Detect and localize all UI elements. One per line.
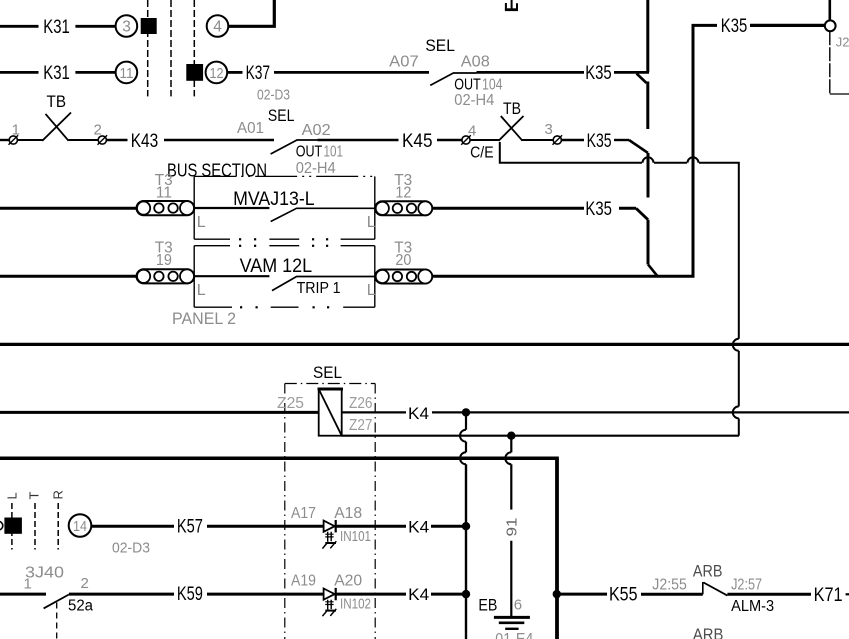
svg-text:K35: K35: [721, 16, 748, 37]
bus K35 vertical 648: [646, 0, 649, 72]
wire above J2 circle: [828, 0, 831, 20]
wire K43 to contact: [164, 139, 274, 141]
contact VAM TRIP blade: [272, 277, 375, 291]
svg-text:K37: K37: [246, 63, 271, 84]
svg-text:91: 91: [504, 518, 521, 537]
wire: [437, 139, 462, 141]
wire 91 lower: [510, 541, 512, 616]
bus wire y=456.5 with corner down: [0, 457, 559, 461]
svg-text:6: 6: [514, 597, 522, 614]
switch TB left X: [42, 113, 71, 141]
svg-text:L: L: [4, 492, 19, 499]
wire: [641, 593, 703, 596]
svg-text:SEL: SEL: [268, 106, 295, 125]
wire row E left: [0, 275, 137, 278]
switch TB right X: [499, 116, 524, 141]
svg-text:3: 3: [545, 121, 553, 138]
wire to corner 739: [699, 163, 739, 339]
wire row A to top edge: [228, 0, 274, 26]
bus merge diagonal row D: [636, 208, 648, 219]
terminal circle 3: [116, 15, 138, 37]
svg-text:BUS SECTION: BUS SECTION: [167, 161, 267, 181]
svg-text:L: L: [197, 214, 206, 231]
wire: [91, 525, 174, 528]
junction dot row G / 466: [462, 408, 470, 416]
svg-text:SEL: SEL: [425, 36, 455, 55]
svg-text:12: 12: [395, 185, 411, 202]
fuse/MOV Z25-Z26 box: [319, 389, 342, 436]
svg-text:L: L: [367, 282, 376, 299]
svg-text:SEL: SEL: [313, 363, 342, 382]
connector J2 circle: [825, 20, 836, 31]
drawout square row A: [141, 18, 157, 34]
wire: [614, 139, 629, 141]
switch 52a blade: [44, 595, 69, 609]
connector T3-19 pill: [137, 269, 195, 283]
svg-text:R: R: [51, 490, 66, 499]
svg-text:2: 2: [81, 575, 89, 592]
junction dot row J: [462, 522, 470, 530]
svg-text:IN102: IN102: [340, 596, 371, 613]
svg-text:02-D3: 02-D3: [112, 540, 150, 557]
junction dot row K / 466: [462, 590, 470, 598]
svg-text:EB: EB: [478, 595, 497, 614]
svg-text:J2:4: J2:4: [836, 35, 849, 50]
drawout square bottom left: [4, 518, 22, 534]
svg-text:A07: A07: [389, 53, 419, 70]
relay box MVAJ13-L outline: [193, 176, 195, 239]
svg-text:02-D3: 02-D3: [257, 87, 290, 104]
wire row G to right edge: [432, 411, 849, 413]
svg-text:A18: A18: [334, 505, 362, 522]
hop of vertical 739 over K4 row: [733, 406, 739, 418]
svg-text:4: 4: [213, 19, 222, 36]
contact A07-A08 blade: [430, 73, 476, 85]
svg-text:101: 101: [324, 144, 344, 161]
contact ARB tick and blade: [702, 582, 704, 594]
svg-text:K4: K4: [408, 518, 429, 537]
wire in box row D: [194, 207, 269, 209]
svg-text:K4: K4: [408, 404, 429, 423]
junction dot row K / 557: [553, 590, 561, 598]
svg-text:C/E: C/E: [470, 145, 494, 162]
terminal circle 4: [207, 15, 229, 37]
svg-text:A01: A01: [237, 120, 264, 137]
svg-text:K43: K43: [131, 131, 159, 152]
svg-text:K31: K31: [43, 17, 70, 38]
wire: [227, 71, 242, 74]
svg-text:11: 11: [120, 66, 134, 82]
wire K31 row B left: [0, 71, 39, 74]
svg-text:TB: TB: [47, 92, 67, 111]
wire in box row E: [194, 275, 269, 277]
wire: [470, 139, 499, 141]
svg-text:K4: K4: [408, 585, 429, 604]
wire: [75, 25, 115, 28]
wire: [431, 525, 466, 528]
dashed boundary line 2: [170, 0, 172, 96]
wire: [17, 139, 43, 141]
svg-text:K35: K35: [587, 131, 612, 152]
terminal circle 14: [69, 514, 92, 537]
terminal 4 circle: [462, 136, 470, 144]
svg-text:A02: A02: [302, 122, 331, 139]
svg-text:K45: K45: [402, 131, 433, 152]
wire: [75, 71, 115, 74]
svg-text:02-H4: 02-H4: [296, 160, 336, 177]
svg-text:Z27: Z27: [349, 417, 373, 434]
svg-text:ARB: ARB: [693, 562, 723, 581]
wire: [557, 593, 607, 596]
svg-text:IN101: IN101: [340, 528, 371, 545]
svg-text:L: L: [197, 282, 206, 299]
svg-text:OUT: OUT: [296, 144, 323, 161]
svg-text:OUT: OUT: [454, 77, 481, 94]
svg-text:Z26: Z26: [349, 395, 373, 412]
wire: [738, 351, 740, 407]
svg-text:A17: A17: [291, 505, 316, 522]
svg-text:A19: A19: [291, 573, 316, 590]
svg-text:52a: 52a: [68, 598, 93, 615]
svg-text:12: 12: [210, 66, 224, 82]
edge circle: [0, 521, 3, 530]
ground EB bars: [494, 616, 530, 619]
svg-text:TB: TB: [503, 99, 521, 118]
svg-text:VAM 12L: VAM 12L: [240, 256, 313, 277]
svg-text:K35: K35: [585, 63, 612, 84]
bus merge diagonal row B: [637, 74, 647, 84]
wire: [727, 593, 811, 596]
svg-text:K59: K59: [177, 584, 203, 605]
wire row E right to corner up to K35 top: [432, 25, 717, 276]
wire corner to row H: [738, 418, 740, 435]
svg-text:3: 3: [122, 19, 131, 36]
contact A01-A02 blade: [271, 140, 318, 154]
wire to J2 connector: [750, 24, 825, 27]
svg-text:A20: A20: [334, 573, 362, 590]
svg-text:T: T: [27, 492, 42, 500]
connector T3-20 pill: [375, 270, 432, 284]
svg-text:ALM-3: ALM-3: [731, 598, 774, 615]
dashed line 1: [11, 503, 13, 550]
dashed boundary line 1: [147, 0, 149, 96]
terminal circle 11: [116, 62, 138, 84]
wire K4 row G left: [0, 411, 319, 414]
svg-text:L: L: [367, 214, 376, 231]
wire: [522, 139, 554, 141]
rotated E glyph at top: [505, 8, 518, 11]
svg-text:K31: K31: [43, 63, 70, 84]
hop of vertical 739 over bus F: [733, 339, 739, 351]
svg-text:14: 14: [73, 519, 87, 535]
wire K37 to contact: [274, 71, 429, 74]
relay box VAM 12L outline: [193, 246, 195, 308]
svg-text:J2:55: J2:55: [652, 576, 687, 593]
wire row D left: [0, 207, 137, 210]
contact MVAJ blade: [271, 208, 375, 221]
node wire from TB down to cross line: [500, 142, 642, 163]
svg-text:02-H4: 02-H4: [454, 92, 494, 109]
svg-text:1: 1: [24, 576, 32, 593]
junction dot row H / 511: [507, 432, 515, 440]
hop over bus 648: [643, 157, 654, 162]
svg-text:01-E4: 01-E4: [495, 631, 533, 639]
wire contact to K35: [477, 71, 585, 74]
boundary top edge: [285, 383, 375, 385]
svg-text:PANEL 2: PANEL 2: [172, 309, 236, 328]
vertical wire 511 to ground: [510, 436, 512, 453]
bus wire y=344.8: [0, 343, 849, 346]
terminal 3 circle: [553, 136, 561, 144]
drawout square row B: [186, 64, 203, 81]
wire: [69, 139, 99, 141]
svg-text:TRIP 1: TRIP 1: [297, 280, 341, 297]
wire contact to K45: [317, 139, 398, 141]
wire: [207, 593, 324, 596]
svg-text:20: 20: [395, 252, 411, 269]
svg-text:MVAJ13-L: MVAJ13-L: [233, 189, 315, 210]
wire: [619, 207, 636, 210]
svg-text:11: 11: [156, 185, 172, 202]
wire: [431, 593, 466, 596]
J2 device outline: [829, 31, 831, 94]
svg-text:A08: A08: [461, 53, 490, 70]
vertical wire 466: [465, 412, 467, 429]
diode IN102: [324, 589, 335, 600]
wire row D right: [432, 207, 584, 210]
wire: [654, 162, 687, 164]
52a linkage dashed: [56, 603, 58, 639]
wire: [106, 139, 127, 141]
wire left: [0, 593, 46, 596]
hop over bus 693: [688, 157, 699, 162]
wire: [207, 525, 324, 528]
wire stub left: [0, 139, 10, 141]
terminal 1 circle: [9, 136, 17, 144]
svg-text:K57: K57: [177, 517, 203, 538]
wire: [69, 593, 174, 596]
wire: [337, 593, 407, 596]
terminal circle 12: [206, 62, 228, 84]
diode IN101: [324, 521, 335, 532]
terminal 2 circle: [98, 136, 106, 144]
svg-text:104: 104: [482, 77, 503, 94]
dashed line 3: [57, 503, 59, 550]
wire row G right of fuse: [342, 411, 406, 413]
boundary left line: [284, 384, 286, 639]
svg-text:19: 19: [156, 252, 172, 269]
connector T3-11 pill: [137, 201, 195, 215]
svg-text:K71: K71: [814, 585, 843, 606]
svg-text:ARB: ARB: [693, 625, 724, 639]
wire: [614, 71, 649, 74]
bus merge diagonal row C: [629, 140, 648, 153]
wire row H (fuse bottom to 739): [342, 435, 739, 437]
svg-text:1: 1: [12, 122, 20, 139]
boundary right line: [374, 384, 376, 639]
dashed line 2: [34, 503, 36, 550]
wire: [561, 139, 584, 141]
dashed boundary line 3: [193, 0, 195, 96]
connector T3-12 pill: [375, 201, 432, 215]
svg-text:K35: K35: [585, 199, 612, 220]
wire K31 row A left: [0, 25, 39, 28]
svg-text:K55: K55: [609, 584, 638, 605]
svg-text:J2:57: J2:57: [731, 576, 762, 593]
bus merge diagonal to row E: [648, 264, 658, 276]
wire: [337, 525, 407, 528]
svg-text:Z25: Z25: [277, 395, 304, 412]
wire stub right edge: [846, 593, 849, 595]
